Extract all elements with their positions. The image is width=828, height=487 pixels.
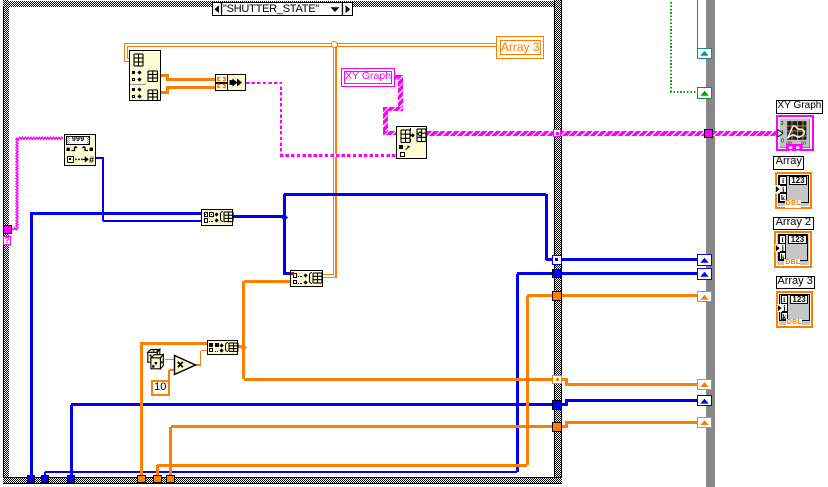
wire cluster dashed vertical [280,82,282,157]
wire boolean dotted horizontal [670,91,698,93]
junction 2D-array wire [331,41,338,48]
case structure bottom border line2 [3,483,562,484]
wire cluster-array to xy terminal [560,131,779,136]
wire boolean dotted vertical [670,0,672,92]
wire to SR orange3 [565,421,698,424]
wire into insert node idx [201,350,208,352]
local variable Array 3 [496,36,544,59]
junction orange wire [240,343,247,350]
tunnel magenta out [553,129,562,138]
wire junction vertical orange [242,281,245,379]
wire xy-local drop [398,75,403,109]
wire orange vertical to bottom tunnel O1 [140,343,143,476]
case structure left border line [3,0,4,484]
wire to bundle in0 [166,78,215,81]
label Array&nbsp;3 [776,276,815,289]
wire string zigzag from selector tunnel [0,130,70,235]
wire T3 left [527,294,553,297]
tunnel T6 orange [552,422,561,431]
wire T2 down [516,274,519,472]
wire cluster-array to case tunnel [427,131,554,136]
wire jog [565,400,568,405]
wire jog [565,422,568,427]
wire into bottom tunnel O2 [156,465,159,476]
wire 2D-array top line2 [127,46,496,47]
wire dice to multiply [165,359,175,361]
shift register blue 2 [697,268,712,280]
tunnel O1 orange bottom [137,475,146,484]
shift register orange 2 [697,379,712,390]
wire T5 out [562,403,568,406]
case structure left border [4,0,10,484]
wire jog [565,379,568,384]
tunnel O2 orange bottom [153,475,162,484]
terminal Array 3 [776,291,813,328]
node Index Array (2D) [129,50,161,101]
wire xy-local out [395,75,403,80]
wire to bundle in1 [166,86,215,89]
wire array to replace node [30,212,203,215]
tunnel selector string [3,225,12,234]
wire T2 left [517,272,553,275]
case selector terminal [3,236,12,246]
wire 2D-array left drop line1 [124,44,125,62]
tunnel T2 blue [552,269,561,278]
wire T3 to SR [562,294,698,297]
shift register green [697,87,712,99]
wire stub into index-array node [125,61,130,62]
tunnel B1 blue bottom [27,475,36,484]
wire jog [166,74,169,80]
wire num to replace node index [103,220,202,222]
label Array&nbsp;2 [773,217,814,230]
node Decimal String To Number [64,134,96,166]
wire into insert node [140,342,208,345]
tunnel T3 orange [552,291,561,300]
svg-text:2: 2 [780,121,783,127]
wire jog [166,86,169,94]
tunnel B2 blue bottom [41,475,50,484]
wire stub from replace node out 1 [322,274,334,275]
wire T5 left [71,403,553,406]
case structure bottom border line1 [3,477,562,478]
while loop right border [706,0,715,487]
wire into bottom tunnel B2 [44,472,46,476]
wire top run to right [284,193,546,196]
tunnel B3 blue bottom [67,475,76,484]
wire cluster dashed from bundle [246,82,282,84]
wire cluster dashed to replace node [280,154,397,156]
wire replace out to junction [232,215,286,218]
wire xy-local jog left [383,107,403,112]
wire long bottom run blue [45,471,517,473]
terminal XY Graph [776,115,814,151]
wire from 10 const [168,370,170,381]
wire xy-local drop2 [383,107,388,136]
case structure right border [555,0,561,484]
shift register teal [697,48,712,59]
tunnel T4 orange hollow [552,375,562,384]
shift register blue 1 [697,254,712,266]
node Random Number dice [146,348,168,372]
svg-text:0: 0 [781,138,784,144]
wire num down [102,158,104,221]
wire long bottom run orange [157,464,527,467]
tunnel while-loop magenta [704,129,713,138]
wire stub from replace node out 2 [322,277,337,278]
wire junction to 2d-replace node [283,272,291,275]
wire T4 out [562,378,568,381]
wire junction vertical [283,194,286,273]
wire T6 left [171,425,554,428]
local variable XY Graph [341,68,396,88]
wire T1 to SR [562,258,698,261]
junction blue wire [281,213,288,220]
wire multiply out [194,364,201,366]
wire stub into index-array node 2 [127,58,129,59]
wire T6 out [562,425,568,428]
tunnel O3 orange bottom [166,475,175,484]
wire 2D-array top line1 [124,43,496,44]
tunnel T1 blue hollow [552,255,562,264]
shift register orange 1 [697,291,712,303]
wire 2D-array mid vertical line2 [335,46,336,277]
wire T3 down [526,296,529,466]
wire str-to-num out [96,157,104,159]
wire insert out [237,345,245,348]
wire teal refnum [697,0,699,50]
case structure right border outer line [554,0,555,484]
node Insert/Replace Into Array [207,340,239,355]
wire array up from bottom tunnel [30,213,33,479]
shift register blue 3 [697,395,712,407]
wire up [200,351,202,366]
wire down to bottom tunnel B3 [70,405,73,476]
wire to hollow tunnel T4 [244,378,553,381]
wire to SR orange2 [565,383,698,386]
wire 2D-array left drop line2 [127,46,128,59]
coercion dot [291,272,295,276]
case structure right border inner line [561,0,562,484]
wire 2D-array mid vertical line1 [333,44,334,274]
wire index row1 out [160,91,168,94]
label XY&nbsp;Graph [776,100,823,114]
wire index row0 out [160,74,168,77]
label Array [773,156,804,169]
shift register orange 3 [697,417,712,428]
terminal Array 2 [774,231,811,268]
terminal Array [775,172,812,209]
node Multiply [173,354,197,376]
constant 10 [151,380,170,396]
node Replace Array Subset (2D row) [290,270,323,287]
tunnel T5 blue [552,400,561,409]
case structure bottom border [3,478,562,483]
wire to SR blue3 [565,399,698,402]
wire into bottom tunnel O3 [169,427,172,476]
node Replace Array Subset (1D) [201,209,233,226]
case structure top border [3,1,562,7]
wire T2 to SR [562,272,698,275]
wire to 2d-replace elem input [244,280,291,283]
wire into T1 [546,258,553,261]
node Bundle [215,74,247,91]
wire 10 to multiply [169,369,175,371]
wire into replace-cluster node [383,131,397,136]
node Replace Array Subset (cluster array) [396,126,427,159]
case selector label [212,2,353,16]
wire down to tunnel T1 [545,194,548,260]
